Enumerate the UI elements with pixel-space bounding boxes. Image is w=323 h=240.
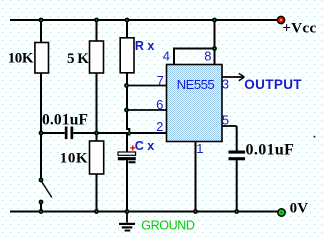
svg-text:4: 4 bbox=[163, 49, 170, 64]
svg-text:8: 8 bbox=[204, 49, 211, 64]
svg-text:10K: 10K bbox=[60, 151, 88, 167]
svg-text:5: 5 bbox=[222, 113, 229, 128]
svg-text:10K: 10K bbox=[8, 51, 34, 67]
svg-text:6: 6 bbox=[156, 97, 163, 112]
svg-text:2: 2 bbox=[156, 119, 163, 134]
svg-text:OUTPUT: OUTPUT bbox=[244, 77, 302, 92]
svg-text:0V: 0V bbox=[290, 201, 309, 217]
svg-text:0.01uF: 0.01uF bbox=[42, 112, 88, 129]
svg-text:GROUND: GROUND bbox=[141, 219, 195, 233]
svg-text:5 K: 5 K bbox=[67, 51, 89, 67]
svg-text:R x: R x bbox=[135, 39, 155, 53]
svg-text:0.01uF: 0.01uF bbox=[246, 142, 295, 159]
svg-text:1: 1 bbox=[196, 141, 203, 156]
svg-text:C x: C x bbox=[135, 139, 155, 153]
svg-text:3: 3 bbox=[222, 77, 229, 92]
svg-text:7: 7 bbox=[157, 73, 164, 88]
svg-text:NE555: NE555 bbox=[177, 77, 215, 92]
svg-text:+Vcc: +Vcc bbox=[282, 20, 316, 36]
